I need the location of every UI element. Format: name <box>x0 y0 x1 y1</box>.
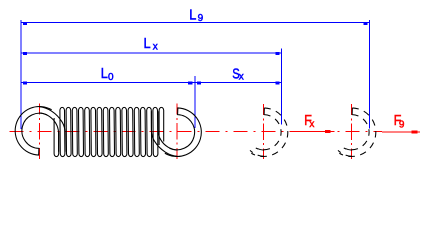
dimension line Lx <box>21 52 282 54</box>
phantom hook F9 <box>338 108 376 157</box>
coil body <box>54 107 164 156</box>
svg-text:9: 9 <box>198 13 204 24</box>
vertical centerline right hook <box>176 104 178 160</box>
dimension line Sx <box>195 82 282 84</box>
vertical centerline phantom hook Fx <box>263 104 265 159</box>
dimension line L0 <box>21 82 195 84</box>
svg-text:L: L <box>143 34 150 51</box>
extension line right of Lx/Sx (x=281.5) <box>281 49 283 125</box>
extension line right of L9 (x=369.5) <box>369 20 371 129</box>
right hook <box>151 108 201 157</box>
extension line left (x=21) <box>20 20 22 129</box>
svg-text:9: 9 <box>399 119 405 130</box>
vertical centerline phantom hook F9 <box>351 104 353 159</box>
svg-text:x: x <box>239 72 244 83</box>
svg-text:0: 0 <box>108 72 114 83</box>
svg-text:x: x <box>153 41 158 52</box>
force arrow Fx <box>295 131 335 133</box>
extension line L0/Sx junction (x=195) <box>194 76 196 128</box>
main horizontal centerline <box>10 131 383 133</box>
force arrow F9 <box>382 131 420 133</box>
svg-text:L: L <box>189 5 196 22</box>
left hook <box>15 106 65 155</box>
vertical centerline left hook <box>39 104 41 160</box>
svg-text:x: x <box>309 119 314 130</box>
phantom hook Fx <box>250 108 288 157</box>
dimension line L9 <box>21 22 370 24</box>
